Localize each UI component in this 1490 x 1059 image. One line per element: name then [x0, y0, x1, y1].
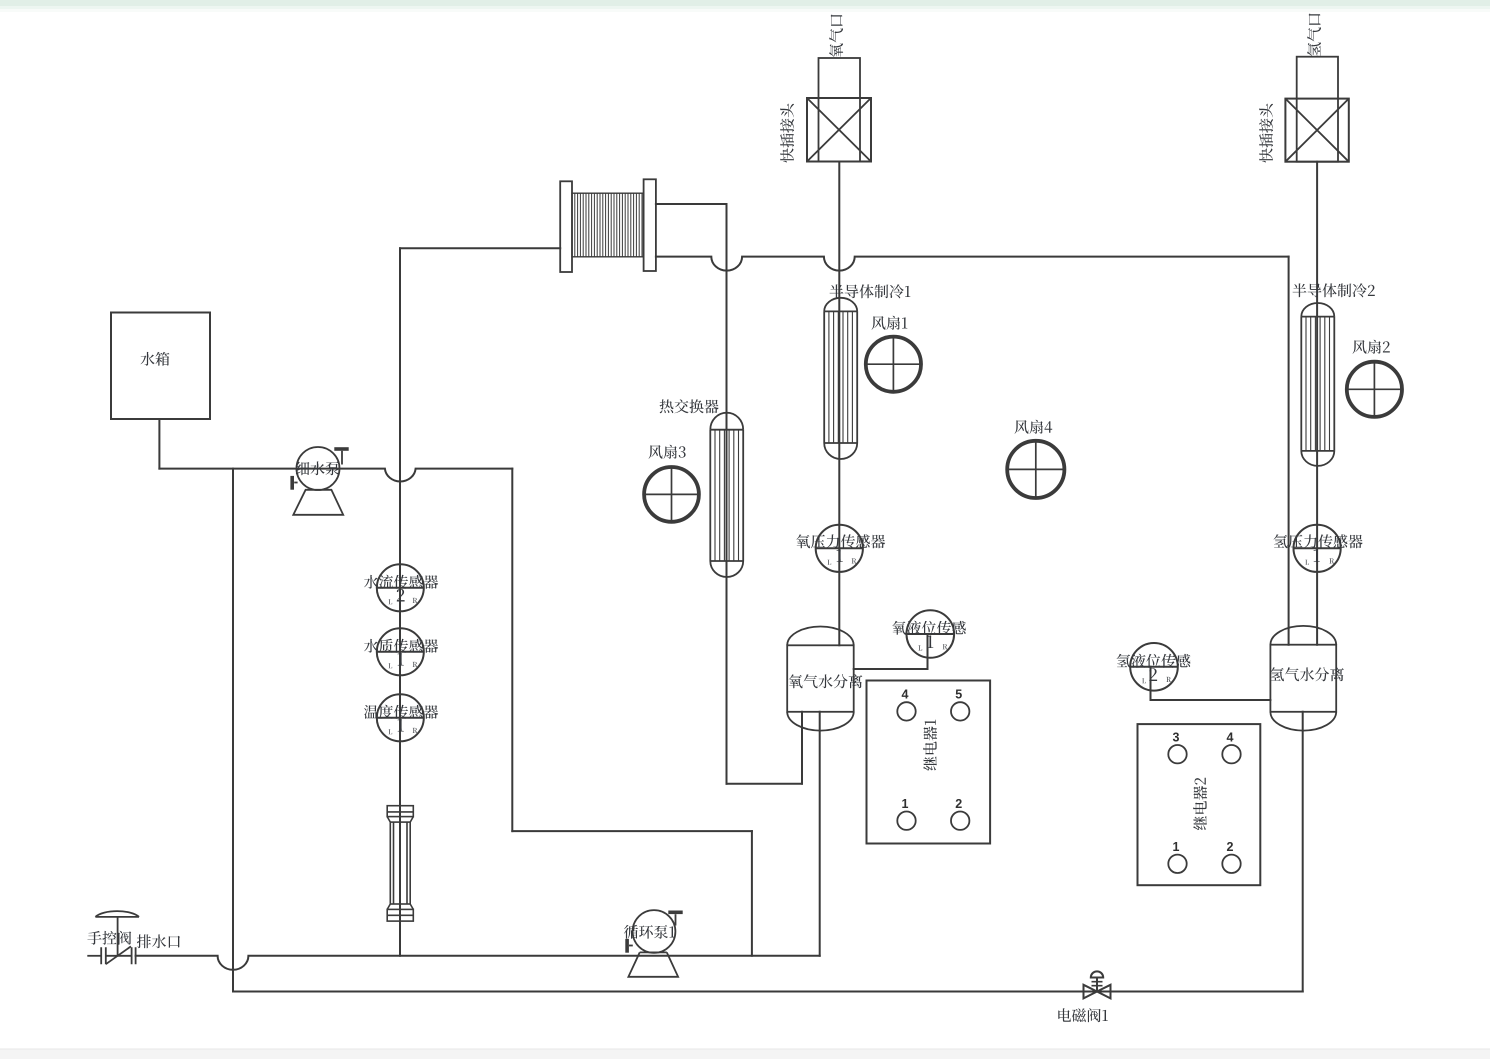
svg-text:1: 1	[902, 797, 909, 811]
sensor number 2	[397, 589, 405, 602]
wire: vertical x=1288.6 down to hydrogen separator	[1288, 257, 1290, 645]
label 排水口	[137, 934, 180, 948]
label 氧液位传感	[892, 621, 966, 635]
sensor number 1	[398, 653, 404, 666]
wire: horizontal at y=831	[512, 830, 752, 832]
label 细水泵	[296, 461, 340, 475]
sensor number 1	[927, 635, 933, 648]
hydrogen pressure sensor 氢压力传感器1	[1294, 525, 1341, 572]
wire: oxygen separator bottom drain x=819.7	[819, 712, 821, 956]
label 循环泵1	[624, 925, 675, 939]
fan 风扇4	[1007, 441, 1064, 498]
label 风扇2	[1353, 340, 1390, 354]
semiconductor cooler 半导体制冷2	[1301, 303, 1334, 466]
svg-text:2: 2	[955, 797, 962, 811]
label 温度传感器	[364, 705, 438, 719]
coil / spool component	[560, 179, 656, 272]
label 风扇1	[872, 316, 908, 330]
label 快插接头 (rotated)	[780, 104, 794, 163]
wire: hydrogen separator bottom stem	[1302, 712, 1304, 992]
label 半导体制冷2	[1293, 283, 1375, 297]
circulation pump 循环泵1	[625, 910, 682, 977]
pump 细水泵	[290, 447, 348, 515]
sensor number 1	[837, 549, 843, 562]
filter column on x=400	[387, 806, 413, 921]
label 氧压力传感器	[796, 534, 885, 548]
sensor L/R marks	[1142, 677, 1171, 683]
label 风扇4	[1015, 420, 1053, 434]
label 手控阀	[87, 931, 131, 945]
label 继电器2 (rotated)	[1193, 778, 1207, 830]
label 快插接头 (rotated)	[1259, 104, 1273, 163]
sensor L/R marks	[388, 598, 417, 604]
flow sensor 水流传感器2	[377, 564, 424, 611]
wire: coil left lead	[400, 247, 560, 249]
svg-text:4: 4	[1227, 730, 1234, 744]
svg-text:5: 5	[955, 688, 962, 702]
label 热交换器	[660, 399, 719, 413]
wire: vertical x=802 up into oxygen separator bottom	[801, 712, 803, 784]
water tank 水箱	[111, 313, 210, 420]
wire: coil top right lead	[656, 203, 727, 205]
svg-text:3: 3	[1173, 730, 1180, 744]
wire: oxygen gas line x=839.3 from connector to separator	[838, 162, 840, 646]
label 电磁阀1	[1058, 1008, 1108, 1022]
svg-text:2: 2	[1227, 840, 1234, 854]
svg-text:1: 1	[1173, 840, 1180, 854]
hydrogen separator vessel 氢气水分离	[1270, 626, 1336, 731]
relay 1 terminal numbers	[902, 688, 963, 811]
wire: hydrogen level sensor link	[1151, 667, 1271, 700]
wire: hydrogen gas line x=1317.1 from connector to separator	[1316, 162, 1318, 645]
relay box 继电器1	[867, 681, 991, 844]
label 氢液位传感	[1117, 654, 1191, 668]
label 水箱	[140, 352, 169, 366]
label 氧气口 (rotated)	[829, 14, 843, 57]
sensor L/R marks	[1305, 558, 1334, 564]
label 氧气水分离	[789, 674, 863, 688]
sensor L/R marks	[388, 662, 417, 668]
sensor number 1	[1314, 549, 1320, 562]
wire: vertical x=752 down to bottom bus	[751, 831, 753, 956]
label 水质传感器	[364, 639, 438, 653]
label 风扇3	[649, 445, 686, 459]
semiconductor cooler 半导体制冷1	[824, 298, 857, 459]
label 氢气口 (rotated)	[1307, 13, 1321, 56]
wire: horizontal y=783.7 below heat exchanger	[727, 783, 803, 785]
label 继电器1 (rotated)	[923, 720, 937, 771]
temperature sensor 温度传感器1	[377, 694, 424, 741]
fan 风扇3	[644, 467, 699, 522]
label 氢压力传感器	[1274, 534, 1363, 548]
wire: bottom bus y=955.8 with hop over x=233	[136, 956, 820, 970]
oxygen level sensor 氧液位传感1	[907, 610, 955, 658]
sensor number 1	[398, 719, 404, 732]
wire: bottom bus y=991.5	[233, 991, 1303, 993]
relay box 继电器2	[1138, 724, 1261, 885]
heat exchanger 热交换器	[710, 413, 743, 577]
label 水流传感器	[364, 575, 438, 589]
solenoid valve 电磁阀1	[1084, 971, 1111, 998]
oxygen separator vessel 氧气水分离	[787, 626, 854, 730]
wire: pump feed line with hop over node at x=400	[159, 469, 512, 482]
wire: left main vertical x=400	[399, 248, 401, 956]
quality sensor 水质传感器1	[377, 628, 424, 675]
fan 风扇1	[866, 337, 921, 392]
svg-text:4: 4	[902, 688, 909, 702]
wire: long horizontal y=256.6 with hops at x=726.5 and x=839	[656, 257, 1289, 271]
wire: branch down at x=233	[232, 469, 234, 992]
oxygen pressure sensor 氧压力传感器1	[816, 525, 863, 572]
quick connector 快插接头 (hydrogen)	[1285, 57, 1348, 162]
wire: vertical from pump line corner down at x=512	[511, 469, 513, 831]
hydrogen level sensor 氢液位传感2	[1130, 643, 1178, 691]
label 半导体制冷1	[830, 284, 911, 298]
sensor L/R marks	[388, 728, 417, 734]
relay 2 terminal numbers	[1173, 730, 1234, 854]
label 氢气水分离	[1270, 667, 1344, 681]
quick connector 快插接头 (oxygen)	[807, 58, 871, 162]
wire: oxygen level sensor link	[854, 634, 928, 669]
wire: water tank outlet stem	[158, 419, 160, 469]
manual valve 手控阀 with drain 排水口	[87, 911, 139, 964]
sensor L/R marks	[827, 558, 856, 564]
sensor number 2	[1149, 668, 1157, 681]
wire: vertical x=726.5 through heat exchanger	[726, 204, 728, 784]
fan 风扇2	[1347, 362, 1402, 417]
sensor L/R marks	[918, 644, 947, 650]
